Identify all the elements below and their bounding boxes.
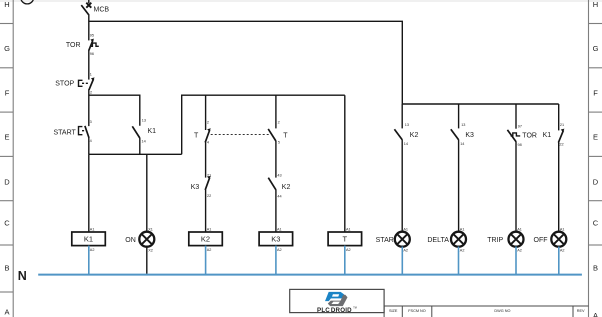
svg-text:DROID: DROID <box>331 307 352 314</box>
svg-text:2: 2 <box>207 121 209 125</box>
svg-text:D: D <box>593 177 599 186</box>
svg-text:13: 13 <box>461 123 465 127</box>
svg-text:E: E <box>4 133 9 142</box>
coil K1 <box>72 232 106 252</box>
svg-text:K3: K3 <box>191 184 200 191</box>
svg-text:B: B <box>593 263 598 272</box>
node L1 supply circle (cropped at top) <box>21 0 34 4</box>
coil K2 <box>189 232 223 252</box>
wire K1 coil to N (blue) <box>88 246 90 275</box>
svg-text:3: 3 <box>90 120 92 124</box>
wire TOR contact to TRIP lamp <box>515 141 517 232</box>
svg-text:97: 97 <box>518 125 522 129</box>
svg-text:22: 22 <box>207 194 211 198</box>
svg-text:A1: A1 <box>460 227 465 231</box>
svg-text:STAR: STAR <box>376 237 394 244</box>
wire STAR lamp to N (blue) <box>401 247 403 275</box>
svg-text:K3: K3 <box>465 132 474 139</box>
svg-text:A1: A1 <box>90 227 95 231</box>
svg-text:H: H <box>4 0 9 9</box>
timer contact T 2-5 (right, NO delayed) <box>268 95 288 144</box>
lamp OFF <box>534 232 567 253</box>
svg-text:4: 4 <box>207 141 209 145</box>
pushbutton STOP 1-2 (NC) <box>55 72 94 94</box>
overload trip contact TOR 97-98 (NO) <box>507 104 537 147</box>
svg-text:98: 98 <box>518 143 522 147</box>
svg-text:REV: REV <box>577 309 585 313</box>
wire T contact to K3 contact <box>205 142 207 177</box>
svg-text:A: A <box>593 311 598 317</box>
contact K2 43-44 (NO) <box>268 174 290 199</box>
svg-text:TM: TM <box>353 306 356 309</box>
svg-text:X1: X1 <box>148 227 153 231</box>
svg-text:F: F <box>5 88 10 97</box>
overload contact TOR 95-96 <box>66 34 99 56</box>
svg-text:A2: A2 <box>560 249 565 253</box>
svg-text:PLC: PLC <box>317 307 330 314</box>
contact K2 13-14 (NO, star indicator) <box>394 104 418 146</box>
svg-text:N: N <box>18 269 27 283</box>
svg-text:K1: K1 <box>84 235 93 244</box>
svg-text:A2: A2 <box>277 248 282 252</box>
coil T <box>328 232 362 252</box>
wire K1 contact to control rail <box>139 138 141 155</box>
neutral rail N (blue) <box>38 274 582 276</box>
svg-text:TOR: TOR <box>522 133 537 140</box>
svg-text:H: H <box>593 0 598 9</box>
svg-text:C: C <box>4 219 10 228</box>
svg-text:A2: A2 <box>517 249 522 253</box>
wire to K3 coil <box>275 190 277 232</box>
svg-text:K2: K2 <box>410 132 419 139</box>
svg-text:A1: A1 <box>403 227 408 231</box>
title block cells <box>384 306 588 317</box>
wire T contact to K2 contact <box>275 141 277 178</box>
svg-text:4: 4 <box>90 139 92 143</box>
svg-text:A2: A2 <box>90 248 95 252</box>
svg-text:A2: A2 <box>460 249 465 253</box>
svg-text:21: 21 <box>560 123 564 127</box>
mechanical link dashed (timer changeover) <box>211 134 270 136</box>
svg-text:T: T <box>194 132 199 139</box>
svg-text:OFF: OFF <box>534 237 548 244</box>
svg-text:F: F <box>593 88 598 97</box>
svg-text:A2: A2 <box>207 248 212 252</box>
contact K1 21-22 (NC, off indicator) <box>543 104 565 146</box>
svg-text:A: A <box>4 307 9 316</box>
svg-text:DWG NO: DWG NO <box>494 309 510 313</box>
lamp STAR <box>376 232 410 253</box>
wire to K1 coil <box>88 154 90 232</box>
wire control branch to right section <box>89 21 403 104</box>
wire START to control rail <box>88 138 90 155</box>
wire to K2 coil <box>205 190 207 232</box>
timer contact T 2-4 (left, NC delayed) <box>194 95 211 144</box>
svg-text:B: B <box>4 263 9 272</box>
svg-text:22: 22 <box>559 142 563 146</box>
svg-text:44: 44 <box>277 195 281 199</box>
lamp ON <box>125 232 154 253</box>
svg-text:14: 14 <box>142 140 146 144</box>
wire control rail <box>89 153 182 155</box>
svg-text:14: 14 <box>460 142 464 146</box>
svg-text:SIZE: SIZE <box>389 309 398 313</box>
svg-text:A1: A1 <box>277 227 282 231</box>
wire STOP to START <box>88 89 90 126</box>
svg-text:K3: K3 <box>271 235 280 244</box>
svg-text:FSCM NO: FSCM NO <box>408 309 426 313</box>
svg-text:14: 14 <box>404 142 408 146</box>
wire to ON lamp <box>146 154 148 232</box>
svg-text:A1: A1 <box>560 227 565 231</box>
svg-text:A2: A2 <box>403 249 408 253</box>
svg-text:C: C <box>593 219 599 228</box>
svg-text:X2: X2 <box>148 249 153 253</box>
svg-text:2: 2 <box>90 90 92 94</box>
wire rail riser to timer rail <box>182 95 345 154</box>
wire T coil to N (blue) <box>344 246 346 275</box>
wire K2 coil to N (blue) <box>205 246 207 275</box>
wire TRIP lamp to N (blue) <box>515 247 517 275</box>
svg-text:A1: A1 <box>517 227 522 231</box>
svg-text:G: G <box>4 44 10 53</box>
title block logo box <box>290 289 384 312</box>
wire MCB to TOR <box>88 14 90 40</box>
svg-text:DELTA: DELTA <box>427 237 449 244</box>
contact K3 13-14 (NO, delta indicator) <box>451 104 474 146</box>
lamp DELTA <box>427 232 466 253</box>
svg-text:5: 5 <box>278 141 280 145</box>
wire OFF lamp to N (blue) <box>558 247 560 275</box>
wire K2 contact to STAR lamp <box>401 140 403 232</box>
svg-text:K1: K1 <box>148 128 157 135</box>
svg-text:2: 2 <box>278 121 280 125</box>
svg-text:T: T <box>283 132 288 139</box>
svg-text:START: START <box>53 130 76 137</box>
svg-text:T: T <box>343 235 348 244</box>
svg-text:ON: ON <box>125 237 136 244</box>
wire to T coil <box>344 95 346 232</box>
svg-text:MCB: MCB <box>94 6 110 13</box>
svg-text:1: 1 <box>90 72 92 76</box>
coil K3 <box>259 232 293 252</box>
svg-text:K2: K2 <box>201 235 210 244</box>
svg-text:K1: K1 <box>543 132 552 139</box>
lamp TRIP <box>487 232 523 253</box>
svg-text:STOP: STOP <box>55 81 74 88</box>
svg-text:96: 96 <box>90 52 94 56</box>
pushbutton START 3-4 (NO) <box>53 120 91 143</box>
title block logo PLC DROID <box>317 292 357 314</box>
wire DELTA lamp to N (blue) <box>458 247 460 275</box>
svg-text:13: 13 <box>405 123 409 127</box>
svg-text:95: 95 <box>90 34 94 38</box>
svg-text:TRIP: TRIP <box>487 237 503 244</box>
svg-text:13: 13 <box>142 119 146 123</box>
wire supply to MCB <box>88 0 90 3</box>
wire TOR to STOP <box>88 50 90 80</box>
wire branch to K1 holding contact <box>89 95 140 126</box>
svg-text:43: 43 <box>277 174 281 178</box>
wire K3 coil to N (blue) <box>275 246 277 275</box>
svg-text:A1: A1 <box>207 227 212 231</box>
wire K3 contact to DELTA lamp <box>458 140 460 232</box>
contact K3 21-22 (NC) <box>191 174 211 198</box>
wire right section rail <box>402 103 558 105</box>
svg-text:A1: A1 <box>346 227 351 231</box>
svg-text:TOR: TOR <box>66 42 81 49</box>
svg-text:A2: A2 <box>346 248 351 252</box>
wire K1 contact to OFF lamp <box>558 142 560 232</box>
svg-text:D: D <box>4 177 10 186</box>
contact K1 13-14 (NO holding) <box>132 119 156 144</box>
wire ON lamp to N (black) <box>146 247 148 274</box>
svg-text:K2: K2 <box>282 184 291 191</box>
svg-text:G: G <box>593 44 599 53</box>
breaker MCB <box>81 3 109 15</box>
svg-text:E: E <box>593 133 598 142</box>
